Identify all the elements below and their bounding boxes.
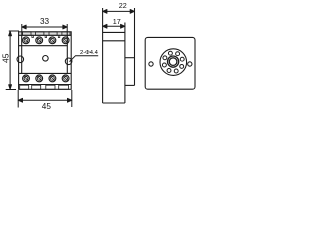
pin hole 2 — [176, 52, 180, 56]
dim 45 left extension top — [9, 30, 19, 32]
bottom tab line — [19, 84, 72, 86]
bottom tab 1 — [20, 85, 29, 89]
side view bottom edge — [103, 102, 125, 104]
side view right edge — [134, 8, 136, 85]
svg-text:45: 45 — [1, 53, 11, 63]
svg-text:2-Φ4.4: 2-Φ4.4 — [80, 50, 99, 56]
svg-text:22: 22 — [119, 1, 127, 10]
arrow 22 left — [103, 9, 107, 13]
arrow 45 left top — [9, 31, 12, 36]
dim 45 bottom line — [18, 99, 72, 101]
screw terminal B4 — [62, 75, 69, 82]
screw terminal B3 — [49, 75, 56, 82]
front view body outline — [19, 32, 72, 90]
dim 17 line — [103, 25, 125, 27]
side view step line — [103, 40, 125, 42]
terminal separator nub 2 — [45, 35, 47, 37]
arrow 45 bottom right — [67, 98, 71, 102]
bottom terminal strip top line — [19, 72, 72, 74]
dim 45 bottom extension left — [17, 90, 19, 108]
side view top edge — [103, 31, 125, 33]
dim 33 extension left — [21, 24, 23, 35]
dim 45 left line — [9, 31, 11, 90]
top band lower line — [19, 34, 72, 36]
arrow 22 right — [130, 9, 134, 13]
top band tab 1 — [23, 32, 31, 36]
screw terminal B1 — [23, 75, 30, 82]
screw terminal A1 — [23, 37, 30, 44]
leader line 2-4.4 — [70, 56, 99, 62]
bottom view mounting hole right — [188, 62, 192, 66]
screw terminal A4 — [62, 37, 69, 44]
dim 22 line — [103, 10, 135, 12]
top band tab 4 — [62, 32, 70, 36]
pin hole 7 — [174, 69, 178, 73]
svg-text:33: 33 — [40, 17, 50, 26]
mounting hole right — [65, 58, 72, 65]
terminal separator nub 3 — [58, 35, 60, 37]
screw terminal B2 — [36, 75, 43, 82]
top terminal strip bottom line — [19, 45, 68, 47]
screw terminal A2 — [36, 37, 43, 44]
arrow 33 right — [63, 25, 67, 29]
arrow 17 left — [103, 24, 107, 28]
pin hole 8 — [180, 64, 184, 68]
side view left edge — [102, 8, 104, 103]
arrow 17 right — [121, 24, 125, 28]
svg-text:45: 45 — [42, 102, 52, 111]
arrow 33 left — [22, 25, 26, 29]
inner left vertical — [21, 35, 23, 73]
pin hole 4 — [163, 56, 167, 60]
pin hole 6 — [167, 69, 171, 73]
svg-text:17: 17 — [113, 17, 121, 26]
pin hole 5 — [162, 63, 166, 67]
side view middle vertical — [124, 23, 126, 104]
top band shading — [19, 32, 71, 35]
pin hole 1 — [180, 57, 184, 61]
side view right mid line — [125, 57, 135, 59]
bottom tab 2 — [32, 85, 41, 89]
screw terminal A3 — [49, 37, 56, 44]
arrow 45 bottom left — [18, 98, 22, 102]
dim 45 left extension bottom — [6, 89, 16, 91]
bottom view plate — [145, 37, 195, 89]
top band tab 2 — [36, 32, 44, 36]
center ring outer — [168, 56, 179, 67]
bottom tab 4 — [59, 85, 69, 89]
center ring inner — [169, 58, 177, 66]
terminal separator nub 1 — [32, 35, 34, 37]
dim 33 extension right — [66, 24, 68, 35]
socket circle — [160, 49, 187, 76]
bottom tab 3 — [46, 85, 55, 89]
bottom view mounting hole left — [149, 62, 153, 66]
side view right step bottom — [125, 84, 135, 86]
dim 45 bottom extension right — [71, 90, 73, 107]
dim 33 line — [22, 26, 67, 28]
inner right vertical — [66, 35, 68, 73]
top band tab 3 — [49, 32, 57, 36]
center hole — [43, 56, 49, 62]
pin hole 3 — [168, 51, 172, 55]
mounting hole left — [17, 56, 24, 63]
arrow 45 left bottom — [9, 85, 12, 90]
